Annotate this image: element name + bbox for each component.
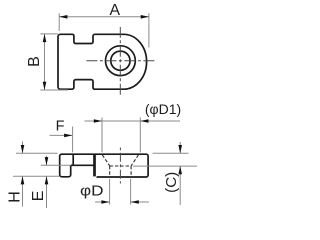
- dimension phiD1: right extension line: [139, 118, 141, 153]
- dimension H/E: bottom extension line: [13, 175, 59, 177]
- dimension phiD1: dimension line: [85, 120, 181, 122]
- dimension F: dimension line: [50, 134, 73, 136]
- front view: hidden countersink left slant: [102, 155, 109, 166]
- dimension B: dimension line: [44, 34, 46, 90]
- svg-text:E: E: [30, 191, 47, 202]
- dimension C: top extension line: [153, 152, 189, 154]
- svg-text:B: B: [26, 56, 43, 67]
- dimension B: top arrowhead: [43, 34, 47, 42]
- front view: strap slot crossbar (slot top edge): [71, 164, 94, 166]
- dimension phiD: left extension line: [109, 179, 111, 205]
- front view: hidden hole left side: [109, 166, 111, 176]
- dimension phiD: right line segment: [131, 201, 149, 203]
- dimension B: bottom arrowhead: [43, 82, 47, 90]
- front view: hidden countersink right slant: [131, 155, 138, 166]
- dimension phiD1: left extension line: [101, 118, 103, 153]
- dimension B: extension lines: [40, 33, 58, 35]
- top view: vertical centerline: [119, 27, 121, 97]
- front view: vertical centerline: [119, 148, 121, 184]
- svg-text:F: F: [56, 119, 65, 135]
- front view: hidden hole right side: [130, 166, 132, 176]
- top view: countersink circle (phi D1): [106, 46, 136, 76]
- svg-text:(C): (C): [163, 172, 180, 193]
- svg-text:(φD1): (φD1): [145, 101, 181, 117]
- dimension E: lower line and up arrowhead: [46, 176, 48, 208]
- top view: horizontal centerline: [84, 60, 157, 62]
- dimension C: lower line and up arrowhead: [179, 166, 181, 205]
- front view: strap slot left wall (top edge to crossbar): [72, 154, 74, 165]
- dimension A: dimension line: [59, 16, 149, 18]
- dimension A: left arrowhead: [59, 15, 67, 19]
- dimension phiD1: left arrowhead (outside): [94, 119, 102, 123]
- dimension H: top extension line: [16, 152, 58, 154]
- dimension H: lower line and up arrowhead: [22, 176, 24, 206]
- svg-text:A: A: [110, 2, 121, 19]
- dimension H: upper line and down arrowhead: [22, 141, 24, 153]
- dimension F: right extension line: [72, 127, 74, 153]
- dimension A: right arrowhead: [141, 15, 149, 19]
- dimension phiD: left arrowhead (outside): [101, 200, 109, 204]
- dimension E: upper line and down arrowhead: [46, 156, 48, 166]
- dimension phiD: left line segment: [95, 201, 110, 203]
- top view: part outline (saddle body with strap notches and round boss): [58, 34, 147, 89]
- dimension C: upper line and down arrowhead: [179, 142, 181, 153]
- front view: boss left wall (thick band): [93, 154, 96, 176]
- front view: hidden countersink bottom edge: [110, 165, 131, 167]
- dimension C: bottom extension line: [133, 165, 197, 167]
- dimension phiD1: right arrowhead (outside): [140, 119, 148, 123]
- svg-text:φD: φD: [80, 182, 104, 199]
- front view: left tab (closed foot): [60, 165, 71, 177]
- dimension F: right arrowhead: [64, 134, 72, 138]
- dimension E: top extension line: [41, 164, 71, 166]
- dimension A: extension lines: [58, 13, 60, 31]
- front view: part outline with open bottom strap notch: [60, 154, 148, 177]
- top view: hole circle (phi D): [111, 51, 130, 70]
- dimension phiD: right extension line: [130, 179, 132, 205]
- dimension phiD: right arrowhead (outside): [131, 200, 139, 204]
- svg-text:H: H: [7, 191, 24, 203]
